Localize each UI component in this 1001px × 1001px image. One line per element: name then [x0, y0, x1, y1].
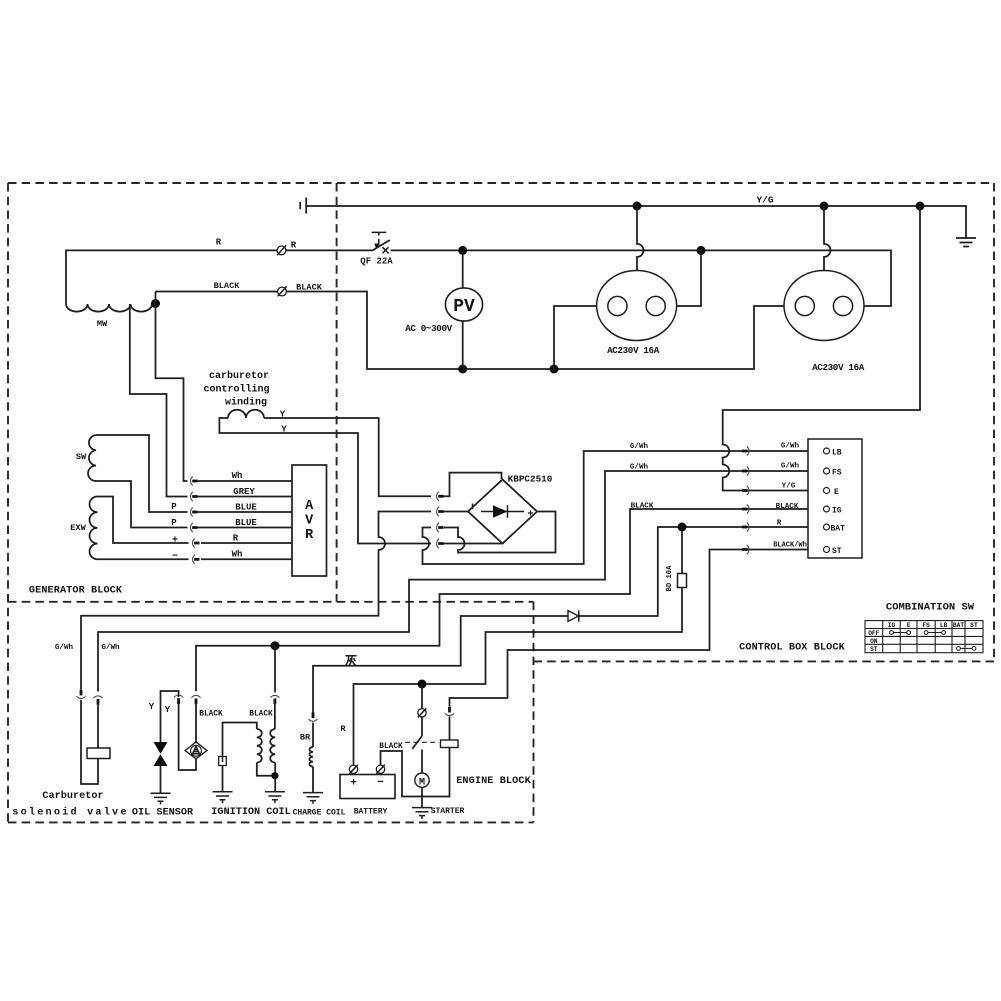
dashed border: control box right edge [993, 183, 995, 661]
connector chevron Wh row [192, 480, 197, 483]
wire: ST row to starter relay [450, 550, 824, 707]
svg-text:BLACK/Wh: BLACK/Wh [773, 542, 807, 550]
wire: R phase from MW to breaker QF [66, 250, 372, 304]
ground (ignition coil) [265, 792, 285, 803]
svg-text:solenoid valve: solenoid valve [12, 807, 128, 819]
svg-text:BLUE: BLUE [235, 518, 257, 528]
connector chevron ST row [742, 548, 748, 551]
wire: GREY lead into AVR [196, 496, 292, 498]
wire: BR lead to charge coil [312, 722, 314, 747]
diode D1 on charge line [568, 611, 579, 622]
connector chevron FS row [742, 470, 748, 473]
zener/valve symbol (two filled triangles) [154, 742, 168, 754]
dashed border: control box bottom edge [534, 660, 995, 662]
svg-text:+: + [350, 778, 357, 790]
svg-text:G/Wh: G/Wh [55, 644, 74, 652]
wire: socket1 earth drop with hop over R [637, 206, 644, 271]
svg-text:COMBINATION SW: COMBINATION SW [886, 602, 975, 614]
connector chevron IG row [742, 508, 748, 511]
svg-text:R: R [777, 520, 782, 528]
connector: inline splice on BLACK wire [278, 287, 287, 296]
wire: EXW top to + AVR feed [98, 497, 189, 544]
svg-text:SW: SW [76, 452, 87, 462]
wire: MW right end to Wh AVR feed [156, 292, 188, 482]
connector chevron GREY row [192, 495, 197, 498]
charge coil winding [309, 747, 313, 767]
wire: solenoid bottom loop [81, 700, 98, 784]
svg-text:ST: ST [832, 547, 842, 556]
dashed border: generator/control outer top edge [8, 182, 994, 184]
connector chevron solenoid right wire [94, 696, 103, 698]
connector: starter switch splice [418, 709, 426, 717]
connector chevron E row [742, 489, 748, 492]
node: R junction at PV [458, 246, 467, 255]
svg-text:Carburetor: Carburetor [42, 790, 103, 802]
pin IG [824, 506, 830, 512]
wire: into bridge top corner [443, 473, 502, 497]
svg-text:QF 22A: QF 22A [360, 257, 393, 267]
connector chevron charge coil wire BR [312, 713, 315, 719]
connector chevron relay feed [445, 713, 454, 715]
wire: EXW bottom to - AVR feed [98, 558, 189, 560]
wire: FS row to carburetor solenoid top [98, 471, 824, 692]
wire: Y/G drop to E pin with hops over LB and FS rows [723, 206, 920, 491]
svg-text:CHARGE COIL: CHARGE COIL [293, 809, 346, 818]
wire: BLACK neutral from MW junction [156, 292, 796, 370]
svg-text:+: + [172, 536, 178, 547]
svg-text:+: + [527, 510, 533, 521]
svg-text:GREY: GREY [233, 487, 255, 497]
wire: ignition coil primary feed BLACK [274, 703, 276, 730]
connector chevron bridge bottom feed [438, 542, 443, 545]
connector chevron BAT row [742, 526, 748, 529]
svg-text:BLUE: BLUE [235, 503, 257, 513]
svg-text:P: P [171, 502, 177, 512]
svg-text:KBPC2510: KBPC2510 [508, 474, 553, 485]
wire: + output down and to LB pin (G/Wh) [423, 451, 824, 564]
wire: socket1 right pin riser [665, 250, 701, 306]
starter relay coil [441, 740, 459, 748]
ground (oil sensor) [151, 793, 171, 804]
svg-text:ST: ST [970, 622, 978, 629]
ground (condenser) [213, 792, 233, 803]
wire: zener to ground [160, 766, 162, 793]
svg-text:P: P [171, 518, 177, 528]
connector: battery + terminal [349, 765, 357, 773]
svg-text:FS: FS [922, 622, 930, 629]
svg-text:Y/G: Y/G [782, 483, 796, 491]
svg-text:R: R [216, 238, 222, 248]
ground G2 (top right earth) [956, 238, 976, 247]
wire: starter switch drop [421, 684, 423, 736]
wire: into bridge bottom corner [443, 543, 503, 545]
connector chevron oil sensor Y link [174, 695, 183, 697]
svg-text:BATTERY: BATTERY [354, 808, 388, 817]
connector chevron oil sensor black wire [192, 695, 201, 697]
svg-text:BLACK: BLACK [249, 711, 273, 719]
wire: diode to charge coil (grey) [313, 616, 569, 713]
svg-text:IG: IG [832, 507, 842, 516]
svg-text:A: A [305, 499, 314, 514]
node: starter branch junction [418, 680, 427, 689]
svg-text:IGNITION COIL: IGNITION COIL [211, 807, 290, 818]
node: Y/G junction socket2 [820, 202, 829, 211]
fuse BD 10A [681, 527, 683, 574]
pin E [824, 488, 830, 494]
svg-text:E: E [907, 622, 911, 629]
svg-text:G/Wh: G/Wh [101, 644, 120, 652]
wire: relay feed stub [449, 717, 451, 741]
starter motor M [415, 773, 429, 787]
wire: socket2 earth drop with hop over R [824, 206, 831, 271]
connector block CN1 [808, 439, 862, 558]
svg-text:BAT: BAT [831, 525, 846, 534]
wire: oil sensor top lead BLACK [195, 703, 197, 743]
wire: solenoid top lead [97, 703, 99, 748]
svg-text:STARTER: STARTER [431, 807, 465, 816]
connector: battery - terminal [376, 765, 384, 773]
wire: Y link bracket to zener [161, 691, 179, 742]
svg-text:controlling: controlling [203, 384, 269, 396]
node: R junction at socket1 [697, 246, 706, 255]
svg-text:G/Wh: G/Wh [630, 443, 649, 451]
ground (charge coil) [303, 793, 323, 804]
svg-text:Y: Y [281, 425, 287, 435]
dashed border: engine block bottom edge [8, 821, 534, 823]
wire: battery + stub [353, 774, 355, 775]
dashed link to relay [405, 741, 439, 743]
svg-text:G/Wh: G/Wh [630, 464, 649, 472]
wire: Wh bottom lead into AVR [201, 558, 292, 560]
wire: R lead into AVR [201, 542, 292, 544]
svg-text:G/Wh: G/Wh [781, 463, 800, 471]
svg-text:BLACK: BLACK [631, 503, 654, 511]
voltmeter PV [462, 250, 464, 369]
pin BAT [824, 524, 830, 530]
winding SW (sub winding) [88, 435, 96, 481]
svg-text:Y: Y [165, 705, 171, 715]
svg-text:BLACK: BLACK [296, 283, 323, 293]
svg-text:BLACK: BLACK [379, 743, 403, 751]
wire: starter motor feed [421, 750, 423, 774]
oil sensor body (diamond) [185, 742, 207, 759]
wire: IG row to oil sensor and ignition coil [196, 509, 824, 691]
svg-text:−: − [172, 551, 178, 562]
svg-text:BLACK: BLACK [214, 281, 241, 291]
wire: Y/G earth bus [307, 206, 966, 238]
pin ST [824, 547, 830, 553]
wire: Wh lead into AVR [196, 480, 292, 482]
wire: bridge left corner to G/Wh solenoid return (hop over Y line) [81, 512, 431, 690]
svg-text:BD 10A: BD 10A [666, 565, 674, 592]
node: MW output junction [151, 299, 160, 308]
wire: starter motor to ground [421, 787, 423, 807]
ignition coil secondary winding [270, 729, 275, 763]
label grey (Chinese) [345, 656, 356, 666]
svg-text:Wh: Wh [232, 550, 243, 560]
svg-text:OIL SENSOR: OIL SENSOR [132, 808, 194, 819]
svg-text:ON: ON [870, 638, 878, 645]
svg-text:IG: IG [888, 622, 896, 629]
connector chevron + output link [438, 526, 443, 529]
wire: BLUE lead 1 into AVR [196, 511, 292, 513]
regulator AVR [292, 465, 327, 576]
connector chevron bridge AC left feed [438, 510, 443, 513]
node: Y/G junction socket1 [633, 202, 642, 211]
connector: inline splice on R wire [277, 246, 286, 255]
svg-text:ENGINE BLOCK: ENGINE BLOCK [456, 776, 531, 787]
wire: SW bottom to BLUE AVR feed [96, 481, 188, 528]
svg-text:CONTROL BOX BLOCK: CONTROL BOX BLOCK [739, 643, 845, 654]
svg-text:E: E [834, 488, 839, 497]
svg-text:R: R [305, 528, 314, 543]
node: ignition coil branch [271, 641, 280, 650]
node: Y/G junction to control box [916, 202, 925, 211]
svg-text:winding: winding [225, 397, 267, 409]
svg-text:BLACK: BLACK [776, 503, 799, 511]
svg-text:Y/G: Y/G [756, 195, 773, 206]
svg-text:LB: LB [832, 449, 842, 458]
svg-text:AC230V 16A: AC230V 16A [812, 362, 865, 373]
combination switch table [865, 621, 983, 653]
svg-text:MW: MW [97, 319, 108, 329]
connector chevron solenoid left wire [80, 690, 83, 696]
wire: BAT row from diode riser [579, 527, 823, 616]
svg-text:Y: Y [149, 702, 155, 712]
svg-text:AC230V 16A: AC230V 16A [607, 345, 660, 356]
winding: carburetor controlling winding [228, 410, 264, 418]
wire: MW centre tap to GREY AVR feed [130, 304, 188, 497]
starter switch blade [412, 736, 422, 749]
svg-text:GENERATOR BLOCK: GENERATOR BLOCK [29, 586, 123, 597]
connector chevron ignition coil wire [274, 646, 276, 693]
svg-text:R: R [340, 724, 346, 734]
svg-text:OFF: OFF [868, 630, 879, 637]
svg-text:EXW: EXW [70, 523, 86, 533]
winding EXW (exciter winding) [89, 497, 97, 560]
wire: charge coil to ground [312, 767, 314, 793]
wire: condenser to ground [222, 766, 224, 792]
node: coil bottom junction [271, 772, 278, 779]
svg-text:−: − [377, 777, 384, 789]
connector chevron bridge AC top feed [438, 495, 443, 498]
battery body [340, 775, 395, 799]
wire: BLUE lead 2 into AVR [196, 527, 292, 529]
connector chevron BLUE row 2 [192, 526, 197, 529]
wire: R phase bus from QF to socket2 right pin [391, 250, 892, 306]
connector chevron R row [194, 542, 199, 545]
diode inside bridge [481, 511, 524, 513]
connector chevron BLUE row 1 [192, 511, 197, 514]
condenser [219, 757, 227, 766]
wire: SW top to BLUE AVR feed [96, 435, 188, 512]
socket J2 AC230V 16A [784, 271, 864, 341]
wire: ignition coil bottoms joined [257, 763, 275, 792]
wire: oil sensor bottom loop to Y link [179, 702, 196, 770]
pin FS [824, 468, 830, 474]
dashed border: engine block right edge [533, 602, 535, 823]
breaker QF 22A [372, 232, 387, 235]
svg-text:PV: PV [453, 297, 475, 317]
carburetor solenoid valve body [87, 748, 110, 759]
svg-text:BAT: BAT [953, 622, 964, 629]
svg-text:R: R [291, 241, 297, 251]
svg-text:M: M [419, 778, 425, 789]
svg-text:ST: ST [870, 646, 878, 653]
dashed border: generator/control divider [336, 183, 338, 602]
svg-text:BLACK: BLACK [199, 711, 223, 719]
table OFF row contacts [890, 631, 976, 651]
ground (starter) [412, 808, 432, 819]
wire: battery - to starter relay loop [381, 748, 450, 797]
node: neutral junction at socket1 [550, 365, 559, 374]
wire: winding lower lead Y to bridge AC bottom [219, 418, 431, 544]
svg-text:Wh: Wh [232, 471, 243, 481]
svg-text:LB: LB [940, 622, 948, 629]
node: neutral junction at PV bottom [458, 365, 467, 374]
dashed border: generator block bottom / engine block top [8, 601, 534, 603]
svg-text:G/Wh: G/Wh [781, 443, 800, 451]
wire: bridge + output loop to LB connector [444, 512, 556, 553]
wire: bridge left stub [443, 511, 468, 513]
wire: socket1 left pin drop [554, 306, 608, 369]
connector chevron LB row [742, 450, 748, 453]
svg-text:BR: BR [300, 733, 311, 743]
ignition coil primary winding [257, 729, 262, 763]
connector chevron Wh bottom row [194, 558, 199, 561]
svg-text:FS: FS [832, 469, 842, 478]
pin LB [824, 448, 830, 454]
socket J1 AC230V 16A [597, 271, 677, 341]
node: BAT junction at fuse [678, 523, 687, 532]
svg-text:R: R [233, 534, 239, 544]
svg-text:AC 0~300V: AC 0~300V [405, 323, 452, 334]
ground G1 (top left chassis ground) [305, 198, 307, 214]
svg-text:carburetor: carburetor [209, 370, 269, 382]
rectifier KBPC2510 bridge diamond [468, 480, 537, 544]
winding MW (main winding) [66, 304, 152, 312]
tick at bridge left corner [472, 504, 474, 510]
dashed border: left edge (generator + engine blocks) [7, 183, 9, 822]
wire: winding upper lead Y to bridge AC top [264, 418, 431, 496]
wire: ignition coil top link to condenser [223, 723, 257, 757]
svg-text:V: V [305, 514, 314, 529]
